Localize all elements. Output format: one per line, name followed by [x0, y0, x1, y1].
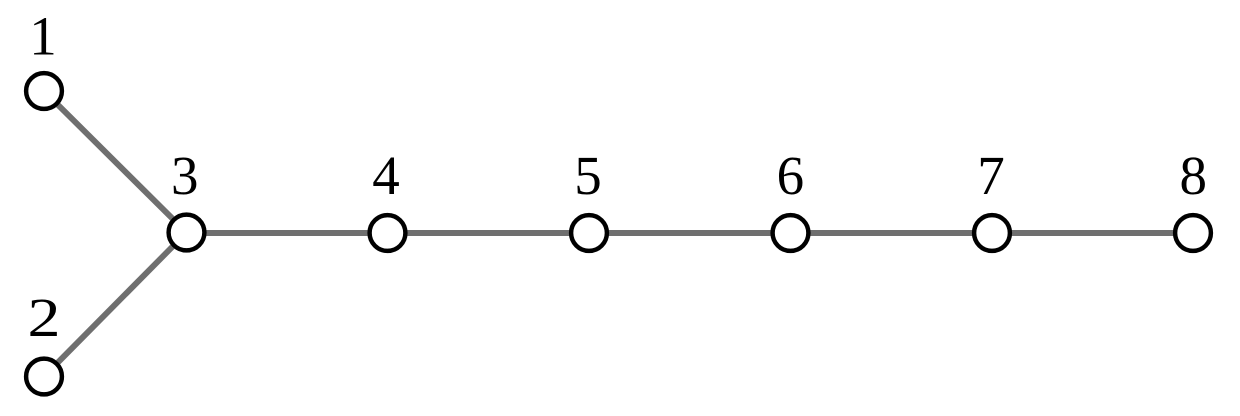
- svg-text:1: 1: [29, 6, 57, 67]
- svg-text:8: 8: [1180, 145, 1208, 206]
- svg-text:5: 5: [574, 145, 602, 206]
- node 8: [1175, 215, 1211, 251]
- wire 7-8: [992, 230, 1193, 236]
- wire 1-3: [44, 91, 187, 233]
- node 5: [571, 215, 607, 251]
- node 4: [370, 215, 406, 251]
- wire 4-5: [388, 230, 590, 236]
- wire 3-4: [187, 230, 388, 236]
- svg-text:2: 2: [27, 288, 60, 349]
- node 1: [26, 73, 62, 109]
- svg-text:6: 6: [777, 145, 805, 206]
- node 7: [974, 215, 1010, 251]
- node 2: [26, 359, 62, 395]
- wire 2-3: [44, 233, 187, 377]
- wire 6-7: [791, 230, 993, 236]
- wire 5-6: [589, 230, 791, 236]
- svg-text:4: 4: [372, 145, 400, 206]
- svg-text:7: 7: [977, 145, 1005, 206]
- node 3: [169, 215, 205, 251]
- node 6: [773, 215, 809, 251]
- svg-text:3: 3: [171, 145, 199, 206]
